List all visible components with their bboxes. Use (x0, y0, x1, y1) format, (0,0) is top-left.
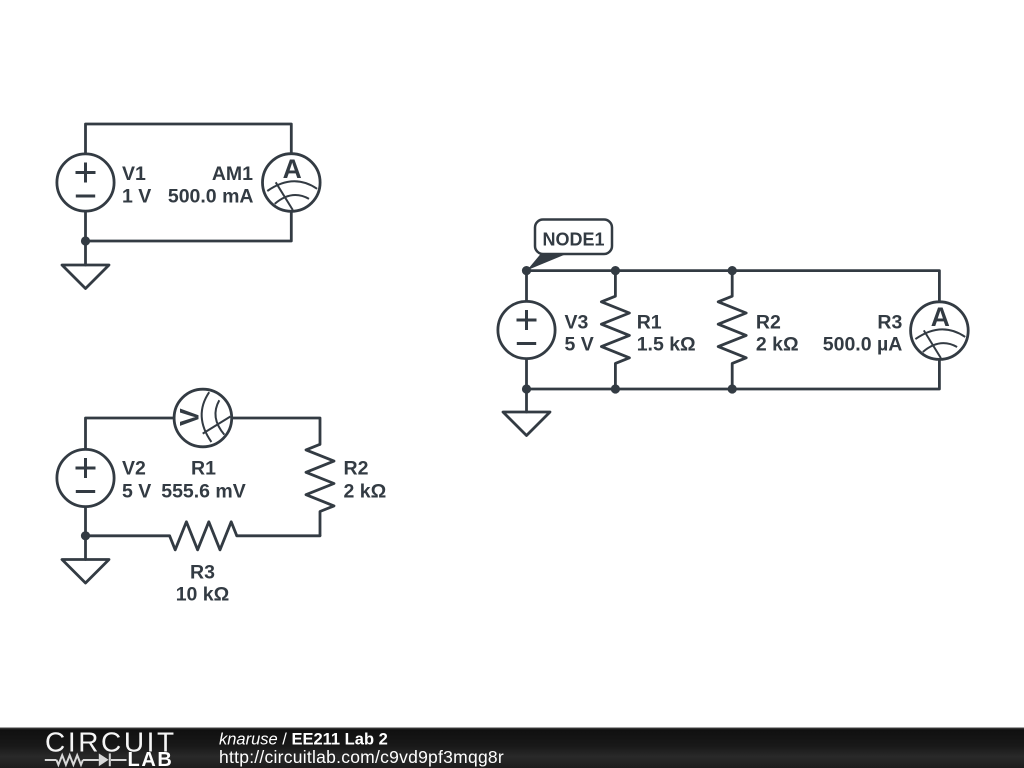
svg-text:10 kΩ: 10 kΩ (176, 583, 230, 605)
svg-text:http://circuitlab.com/c9vd9pf3: http://circuitlab.com/c9vd9pf3mqg8r (219, 747, 504, 767)
node junction dot circuit 1 (81, 236, 90, 245)
node dot top R2 (728, 266, 737, 275)
resistor R2 circuit 3 (718, 271, 746, 389)
svg-text:R3: R3 (877, 312, 902, 334)
resistor R2 circuit 2 (306, 444, 334, 536)
svg-text:V2: V2 (122, 458, 146, 480)
svg-text:5 V: 5 V (565, 334, 594, 356)
ground circuit 3 (503, 389, 550, 436)
svg-text:2 kΩ: 2 kΩ (344, 480, 387, 502)
logo wire with resistor and diode (45, 753, 127, 766)
svg-text:knaruse / EE211 Lab 2: knaruse / EE211 Lab 2 (219, 731, 388, 749)
svg-text:A: A (283, 154, 302, 184)
svg-text:555.6 mV: 555.6 mV (161, 480, 246, 502)
svg-text:1 V: 1 V (122, 185, 151, 207)
svg-text:R1: R1 (191, 458, 216, 480)
svg-text:1.5 kΩ: 1.5 kΩ (637, 334, 696, 356)
ammeter R3 circuit 3 (911, 302, 969, 360)
svg-text:A: A (931, 302, 950, 332)
svg-text:R3: R3 (190, 561, 215, 583)
svg-text:500.0 mA: 500.0 mA (168, 185, 254, 207)
voltage source V3 (498, 301, 555, 358)
ammeter AM1 (263, 154, 321, 212)
svg-text:R2: R2 (344, 458, 369, 480)
voltage source V1 (57, 154, 114, 211)
wire bottom circuit 3 (527, 360, 940, 390)
wire top left circuit 2 (86, 418, 173, 449)
svg-text:5 V: 5 V (122, 480, 151, 502)
svg-text:NODE1: NODE1 (542, 230, 604, 250)
node junction dot circuit 2 (81, 531, 90, 540)
wire top circuit 3 (527, 271, 940, 302)
node dot top R1 (611, 266, 620, 275)
svg-text:AM1: AM1 (212, 163, 253, 185)
node dot bottom R2 (728, 384, 737, 393)
node dot bottom V3 (522, 384, 531, 393)
svg-text:V: V (174, 408, 204, 426)
wire top loop circuit 1 (86, 124, 292, 154)
ground circuit 1 (62, 241, 109, 289)
svg-text:2 kΩ: 2 kΩ (756, 334, 799, 356)
voltage source V2 (57, 449, 114, 506)
logo diode triangle (99, 753, 109, 766)
node dot bottom R1 (611, 384, 620, 393)
node dot top V3 (522, 266, 531, 275)
node label NODE1 (527, 220, 612, 271)
ground circuit 2 (62, 536, 109, 583)
footer bar (0, 728, 1024, 768)
resistor R1 circuit 3 (601, 271, 629, 389)
svg-text:R2: R2 (756, 312, 781, 334)
svg-text:V3: V3 (565, 312, 589, 334)
wire bottom left circuit 2 (86, 508, 170, 536)
wire top right circuit 2 (233, 418, 320, 444)
svg-text:V1: V1 (122, 163, 146, 185)
svg-text:LAB: LAB (128, 749, 174, 768)
resistor R3 circuit 2 (170, 522, 237, 550)
svg-text:500.0 µA: 500.0 µA (823, 334, 903, 356)
voltmeter R1 (174, 389, 232, 447)
wire bottom loop circuit 1 (86, 212, 292, 242)
wire bottom right circuit 2 (237, 534, 320, 537)
svg-text:R1: R1 (637, 312, 662, 334)
